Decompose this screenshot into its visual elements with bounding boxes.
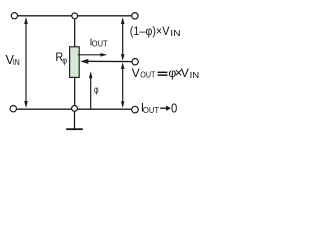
resistor Rphi body <box>70 47 80 78</box>
wire wiper line <box>84 60 132 62</box>
wire bottom rail <box>17 108 132 110</box>
terminal top-left <box>11 13 17 19</box>
arrow Vin measure (double headed vertical) <box>24 17 28 108</box>
label Iout -> 0 <box>141 100 178 115</box>
svg-text:(1–φ)×V: (1–φ)×V <box>130 24 170 38</box>
terminal bottom-right <box>132 106 139 113</box>
terminal bottom-left <box>10 106 16 112</box>
svg-text:IN: IN <box>13 57 20 67</box>
label Vout = phi x Vin <box>132 65 200 80</box>
svg-text:OUT: OUT <box>92 40 108 49</box>
ground <box>66 111 83 129</box>
label (1-phi)xVin <box>130 24 181 38</box>
svg-text:φ: φ <box>62 56 67 66</box>
label Iout <box>90 38 108 49</box>
wiper arrow into resistor <box>80 59 88 64</box>
label Vin <box>6 52 20 67</box>
svg-text:φ: φ <box>94 85 99 96</box>
arrow phi position <box>89 71 93 109</box>
node junction top <box>72 13 78 19</box>
svg-text:IN: IN <box>170 28 180 38</box>
svg-text:OUT: OUT <box>140 70 155 80</box>
arrow (1-phi)Vin measure <box>121 17 125 61</box>
terminal top-right <box>132 13 138 19</box>
svg-text:V: V <box>181 66 190 80</box>
arrow Vout measure <box>121 62 125 108</box>
wire top rail <box>18 15 132 17</box>
svg-text:0: 0 <box>171 100 177 115</box>
label Rphi <box>55 50 67 66</box>
wire resistor bottom stub <box>74 77 76 105</box>
node junction bottom <box>72 106 78 112</box>
svg-text:IN: IN <box>190 70 200 80</box>
arrow Iout direction <box>78 53 107 57</box>
wire resistor top stub <box>74 19 76 47</box>
svg-text:OUT: OUT <box>143 105 159 115</box>
svg-text:V: V <box>132 66 141 80</box>
terminal mid-right Vout <box>132 59 138 65</box>
